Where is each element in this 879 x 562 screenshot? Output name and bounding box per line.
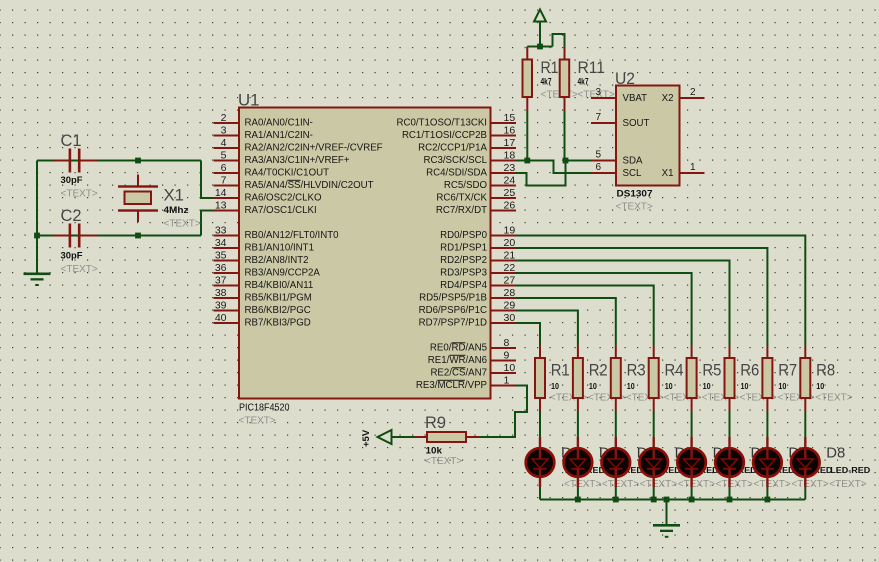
wire R2 to LED D2 [577,412,579,438]
svg-text:RB7/KBI3/PGD: RB7/KBI3/PGD [245,317,311,328]
svg-text:<TEXT>: <TEXT> [640,479,677,490]
svg-text:39: 39 [215,300,227,312]
svg-text:20: 20 [504,237,516,249]
svg-text:27: 27 [504,275,516,287]
svg-text:1: 1 [690,162,696,173]
svg-text:10k: 10k [426,446,443,457]
resistor R9 (10k) [415,436,428,438]
svg-text:25: 25 [504,187,516,199]
svg-text:<TEXT>: <TEXT> [616,202,653,213]
capacitor C2 [53,235,69,237]
svg-text:<TEXT>: <TEXT> [602,479,639,490]
svg-text:PIC18F4520: PIC18F4520 [239,403,290,414]
diode D5 (LED-RED) [677,448,706,477]
resistor R8 (10 ohm) leads [804,346,806,359]
node junction X1 bottom [135,233,141,239]
svg-text:RD1/PSP1: RD1/PSP1 [440,242,487,253]
svg-text:35: 35 [215,250,227,262]
svg-text:C2: C2 [61,206,82,225]
svg-text:10: 10 [778,381,786,391]
node junction X1 top [135,158,141,164]
svg-text:16: 16 [504,125,516,137]
node junction LED rail [575,497,581,503]
svg-text:28: 28 [504,287,516,299]
wire net RD5 to R3 [516,298,616,346]
resistor R6 (10 ohm) leads [729,346,731,359]
svg-text:30: 30 [504,312,516,324]
svg-text:C1: C1 [61,131,82,150]
U1 right pin stubs (pins 15-18,23-26,19-22,27-30,8-10,1) [491,122,517,124]
capacitor C1 [53,160,69,162]
node junction LED rail [727,497,733,503]
svg-text:SOUT: SOUT [623,118,650,129]
resistor R1 (10 ohm) leads [539,346,541,359]
svg-text:15: 15 [504,112,516,124]
svg-text:RB3/AN9/CCP2A: RB3/AN9/CCP2A [245,267,321,278]
svg-text:17: 17 [504,137,516,149]
svg-text:10: 10 [703,381,711,391]
svg-text:7: 7 [595,112,601,123]
wire power to R1/R11 tops [527,46,552,48]
resistor R8 (10 ohm) body [800,358,810,398]
svg-text:RC2/CCP1/P1A: RC2/CCP1/P1A [418,142,487,153]
op-amp U1 body (PIC18F4520 microcontroller) [239,108,491,399]
svg-text:<TEXT>: <TEXT> [829,479,866,490]
svg-text:23: 23 [504,162,516,174]
svg-text:RC7/RX/DT: RC7/RX/DT [436,205,487,216]
svg-text:X1: X1 [164,186,185,205]
svg-text:10: 10 [627,381,635,391]
resistor R1 (4k7 pullup) [526,47,528,60]
svg-text:6: 6 [221,162,227,174]
node junction ground stem [664,497,670,503]
resistor R1 (10 ohm) body [535,358,545,398]
svg-text:<TEXT>: <TEXT> [716,479,753,490]
resistor R4 (10 ohm) body [649,358,659,398]
svg-text:5: 5 [221,150,227,162]
svg-text:SCL: SCL [623,168,642,179]
svg-text:RC6/TX/CK: RC6/TX/CK [436,192,487,203]
wire net RD6 to R2 [516,311,578,346]
resistor R7 (10 ohm) leads [766,346,768,359]
svg-text:21: 21 [504,250,516,262]
svg-text:U2: U2 [615,69,635,88]
wire net XTAL2 (C2 row to pin13) [37,235,201,237]
wire LED bottom drop [653,487,655,500]
resistor R2 (10 ohm) body [573,358,583,398]
op-amp U2 body (DS1307 RTC) [616,86,680,186]
svg-text:4k7: 4k7 [578,77,589,88]
svg-text:40: 40 [215,312,227,324]
wire LED bottom drop [766,487,768,500]
svg-text:RA1/AN1/C2IN-: RA1/AN1/C2IN- [245,130,313,141]
svg-text:38: 38 [215,287,227,299]
svg-text:R9: R9 [425,413,446,432]
resistor R3 (10 ohm) leads [615,346,617,359]
svg-text:14: 14 [215,187,227,199]
wire LED cathode ground rail [540,499,805,501]
svg-text:4k7: 4k7 [541,77,552,88]
svg-text:22: 22 [504,262,516,274]
svg-text:7: 7 [221,175,227,187]
svg-text:LED-RED: LED-RED [830,466,870,475]
resistor R6 (10 ohm) body [725,358,735,398]
svg-text:RA3/AN3/C1IN+/VREF+: RA3/AN3/C1IN+/VREF+ [245,155,350,166]
svg-text:<TEXT>: <TEXT> [564,479,601,490]
wire R8 to LED D8 [804,412,806,438]
svg-text:RB6/KBI2/PGC: RB6/KBI2/PGC [245,305,311,316]
svg-text:RE1/WR/AN6: RE1/WR/AN6 [428,355,487,366]
ground (left, below C2) [24,273,51,276]
svg-text:<TEXT>: <TEXT> [791,479,828,490]
svg-text:1: 1 [504,375,510,387]
svg-text:D8: D8 [826,446,845,462]
svg-text:13: 13 [215,200,227,212]
svg-text:RA2/AN2/C2IN+/VREF-/CVREF: RA2/AN2/C2IN+/VREF-/CVREF [245,142,383,153]
svg-text:R2: R2 [589,361,608,380]
wire net RD3 to R5 [516,273,692,346]
svg-text:SDA: SDA [623,155,643,166]
svg-text:26: 26 [504,200,516,212]
svg-text:RA5/AN4/SS/HLVDIN/C2OUT: RA5/AN4/SS/HLVDIN/C2OUT [245,180,374,191]
diode D3 (LED-RED) [602,448,631,477]
svg-text:VBAT: VBAT [623,93,648,104]
svg-text:RE3/MCLR/VPP: RE3/MCLR/VPP [416,380,487,391]
svg-text:+5V: +5V [361,429,372,447]
svg-text:RA4/T0CKI/C1OUT: RA4/T0CKI/C1OUT [245,167,330,178]
svg-text:8: 8 [504,337,510,349]
svg-text:<TEXT>: <TEXT> [815,393,852,404]
svg-text:19: 19 [504,225,516,237]
node junction LED rail [651,497,657,503]
svg-text:R7: R7 [778,361,797,380]
svg-text:2: 2 [221,112,227,124]
svg-text:6: 6 [595,162,601,173]
node junction R11-SDA [563,158,569,164]
svg-text:RB4/KBI0/AN11: RB4/KBI0/AN11 [245,280,314,291]
svg-text:RB0/AN12/FLT0/INT0: RB0/AN12/FLT0/INT0 [245,230,340,241]
resistor R4 (10 ohm) leads [653,346,655,359]
diode D1 (LED-RED) [526,448,555,477]
wire R1 to LED D1 [539,412,541,438]
svg-text:RB1/AN10/INT1: RB1/AN10/INT1 [245,242,314,253]
svg-text:29: 29 [504,300,516,312]
svg-text:R3: R3 [627,361,646,380]
svg-text:4Mhz: 4Mhz [164,205,189,216]
node junction power stem [537,44,543,50]
svg-text:4: 4 [221,137,227,149]
resistor R7 (10 ohm) body [762,358,772,398]
svg-text:R4: R4 [665,361,684,380]
diode D8 (LED-RED) [791,448,820,477]
diode D4 (LED-RED) [639,448,668,477]
svg-text:RD3/PSP3: RD3/PSP3 [440,267,487,278]
svg-text:RE0/RD/AN5: RE0/RD/AN5 [430,342,487,353]
svg-text:18: 18 [504,150,516,162]
svg-text:R6: R6 [740,361,759,380]
svg-text:R1: R1 [541,58,559,77]
svg-text:10: 10 [589,381,597,391]
wire LED bottom drop [729,487,731,500]
svg-text:30pF: 30pF [61,175,83,186]
svg-text:10: 10 [816,381,824,391]
crystal X1 [137,175,139,186]
svg-text:3: 3 [221,125,227,137]
svg-text:RD4/PSP4: RD4/PSP4 [440,280,487,291]
svg-text:30pF: 30pF [61,251,83,262]
diode D6 (LED-RED) [715,448,744,477]
svg-text:<TEXT>: <TEXT> [425,456,462,467]
wire R11 bottom to SDA net [564,111,566,161]
svg-text:RA6/OSC2/CLKO: RA6/OSC2/CLKO [245,192,322,203]
svg-text:24: 24 [504,175,516,187]
svg-text:RA7/OSC1/CLKI: RA7/OSC1/CLKI [245,205,317,216]
svg-text:10: 10 [504,362,516,374]
ground (bottom, LED rail) [666,500,668,525]
wire LED bottom drop [691,487,693,500]
wire net RD1 to R7 [516,248,767,346]
svg-text:3: 3 [595,87,601,98]
svg-text:R11: R11 [578,58,606,77]
svg-text:34: 34 [215,237,227,249]
svg-text:RC1/T1OSI/CCP2B: RC1/T1OSI/CCP2B [402,130,487,141]
svg-text:RC3/SCK/SCL: RC3/SCK/SCL [423,155,487,166]
wire LED bottom drop [577,487,579,500]
svg-text:33: 33 [215,225,227,237]
wire R3 to LED D3 [615,412,617,438]
wire net RD4 to R4 [516,286,654,346]
node junction R1-SCL [524,158,530,164]
power symbol +5V arrow (top) [534,10,546,22]
wire net XTAL1 (C1 row to pin14) [37,160,201,162]
svg-text:X1: X1 [662,168,674,179]
svg-text:RC0/T1OSO/T13CKI: RC0/T1OSO/T13CKI [397,117,487,128]
wire R1 bottom to SCL net [526,111,528,161]
wire LED bottom drop [615,487,617,500]
wire R7 to LED D7 [766,412,768,438]
node junction LED rail [613,497,619,503]
wire net MCLR (pin1 to R9) [480,386,527,438]
svg-text:37: 37 [215,275,227,287]
wire net SDA (U1 pin23 to U2 SDA) [516,161,591,186]
wire R9 to +5V arrow [392,436,415,438]
svg-text:RD6/PSP6/P1C: RD6/PSP6/P1C [419,305,487,316]
svg-text:RC4/SDI/SDA: RC4/SDI/SDA [426,167,487,178]
wire R6 to LED D6 [729,412,731,438]
wire net SCL (U1 pin18 to U2 SCL) [516,161,591,174]
resistor R2 (10 ohm) leads [577,346,579,359]
svg-text:10: 10 [665,381,673,391]
svg-text:RB5/KBI1/PGM: RB5/KBI1/PGM [245,292,312,303]
svg-text:DS1307: DS1307 [617,189,653,200]
svg-text:10: 10 [741,381,749,391]
wire R4 to LED D4 [653,412,655,438]
svg-text:<TEXT>: <TEXT> [239,416,276,427]
wire left ground rail [36,161,38,273]
svg-text:<TEXT>: <TEXT> [61,189,98,200]
power symbol +5V arrow (left) [378,430,392,444]
U2 pin stubs (3,7,5,6 left; 2,1 right) [591,97,616,99]
diode D7 (LED-RED) [753,448,782,477]
resistor R11 (4k7 pullup) [564,47,566,60]
svg-text:RD5/PSP5/P1B: RD5/PSP5/P1B [419,292,487,303]
wire net RD2 to R6 [516,261,730,346]
diode D2 (LED-RED) [564,448,593,477]
svg-text:U1: U1 [238,91,260,110]
svg-text:RD7/PSP7/P1D: RD7/PSP7/P1D [419,317,487,328]
node junction C2-ground rail [34,233,40,239]
svg-text:RD0/PSP0: RD0/PSP0 [440,230,487,241]
svg-text:9: 9 [504,350,510,362]
svg-text:RE2/CS/AN7: RE2/CS/AN7 [430,367,487,378]
U1 left pin stubs (pins 2-7,14,13,33-40) [214,122,240,124]
wire LED bottom drop [804,487,806,500]
svg-text:R5: R5 [702,361,721,380]
wire LED bottom drop [539,487,541,500]
svg-text:5: 5 [595,150,601,161]
resistor R5 (10 ohm) leads [691,346,693,359]
svg-text:<TEXT>: <TEXT> [164,219,201,230]
svg-text:RB2/AN8/INT2: RB2/AN8/INT2 [245,255,309,266]
svg-text:RD2/PSP2: RD2/PSP2 [440,255,487,266]
svg-text:<TEXT>: <TEXT> [678,479,715,490]
node junction LED rail [765,497,771,503]
svg-text:<TEXT>: <TEXT> [61,264,98,275]
svg-text:RA0/AN0/C1IN-: RA0/AN0/C1IN- [245,117,313,128]
svg-text:<TEXT>: <TEXT> [754,479,791,490]
wire R5 to LED D5 [691,412,693,438]
svg-text:R1: R1 [551,361,570,380]
svg-text:R8: R8 [816,361,835,380]
resistor R5 (10 ohm) body [687,358,697,398]
svg-text:2: 2 [690,87,696,98]
svg-text:RC5/SDO: RC5/SDO [444,180,488,191]
svg-text:X2: X2 [662,93,674,104]
node junction LED rail [689,497,695,503]
wire net RD0 to R8 [516,236,805,346]
wire net RD7 to R1 [516,323,540,346]
svg-text:36: 36 [215,262,227,274]
svg-text:10: 10 [551,381,559,391]
resistor R3 (10 ohm) body [611,358,621,398]
